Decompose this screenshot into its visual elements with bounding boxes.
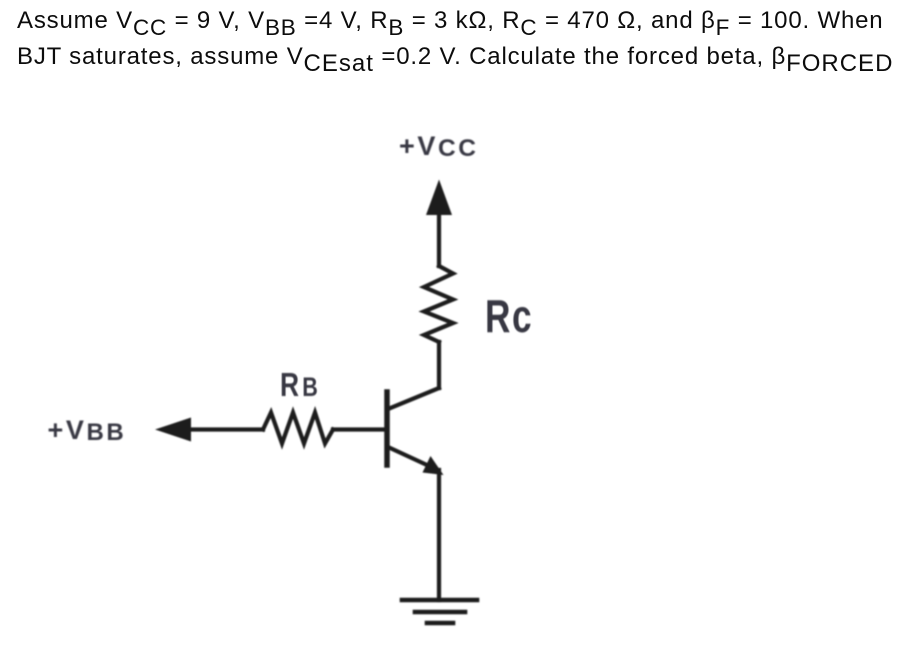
resistor Rc — [424, 266, 453, 342]
transistor Q1 emitter diagonal — [388, 447, 428, 466]
ground middle line — [415, 610, 465, 615]
ground top line — [402, 598, 477, 603]
wire base horizontal — [186, 427, 263, 431]
resistor RB — [263, 413, 333, 444]
label Rc — [485, 293, 533, 339]
arrowhead to +VBB — [155, 418, 191, 442]
question text — [17, 3, 900, 75]
label RB — [280, 368, 321, 401]
wire collector vertical — [437, 342, 441, 388]
emitter arrowhead — [423, 456, 444, 475]
wire base to bar — [333, 427, 385, 431]
label +VBB — [48, 417, 127, 444]
wire emitter vertical — [437, 470, 441, 600]
label +VCC — [399, 133, 479, 161]
transistor Q1 base bar — [384, 392, 390, 465]
arrowhead to +VCC — [426, 180, 452, 216]
wire VCC arrow stem — [437, 211, 441, 266]
ground bottom line — [427, 621, 453, 626]
transistor Q1 collector diagonal — [388, 388, 439, 409]
